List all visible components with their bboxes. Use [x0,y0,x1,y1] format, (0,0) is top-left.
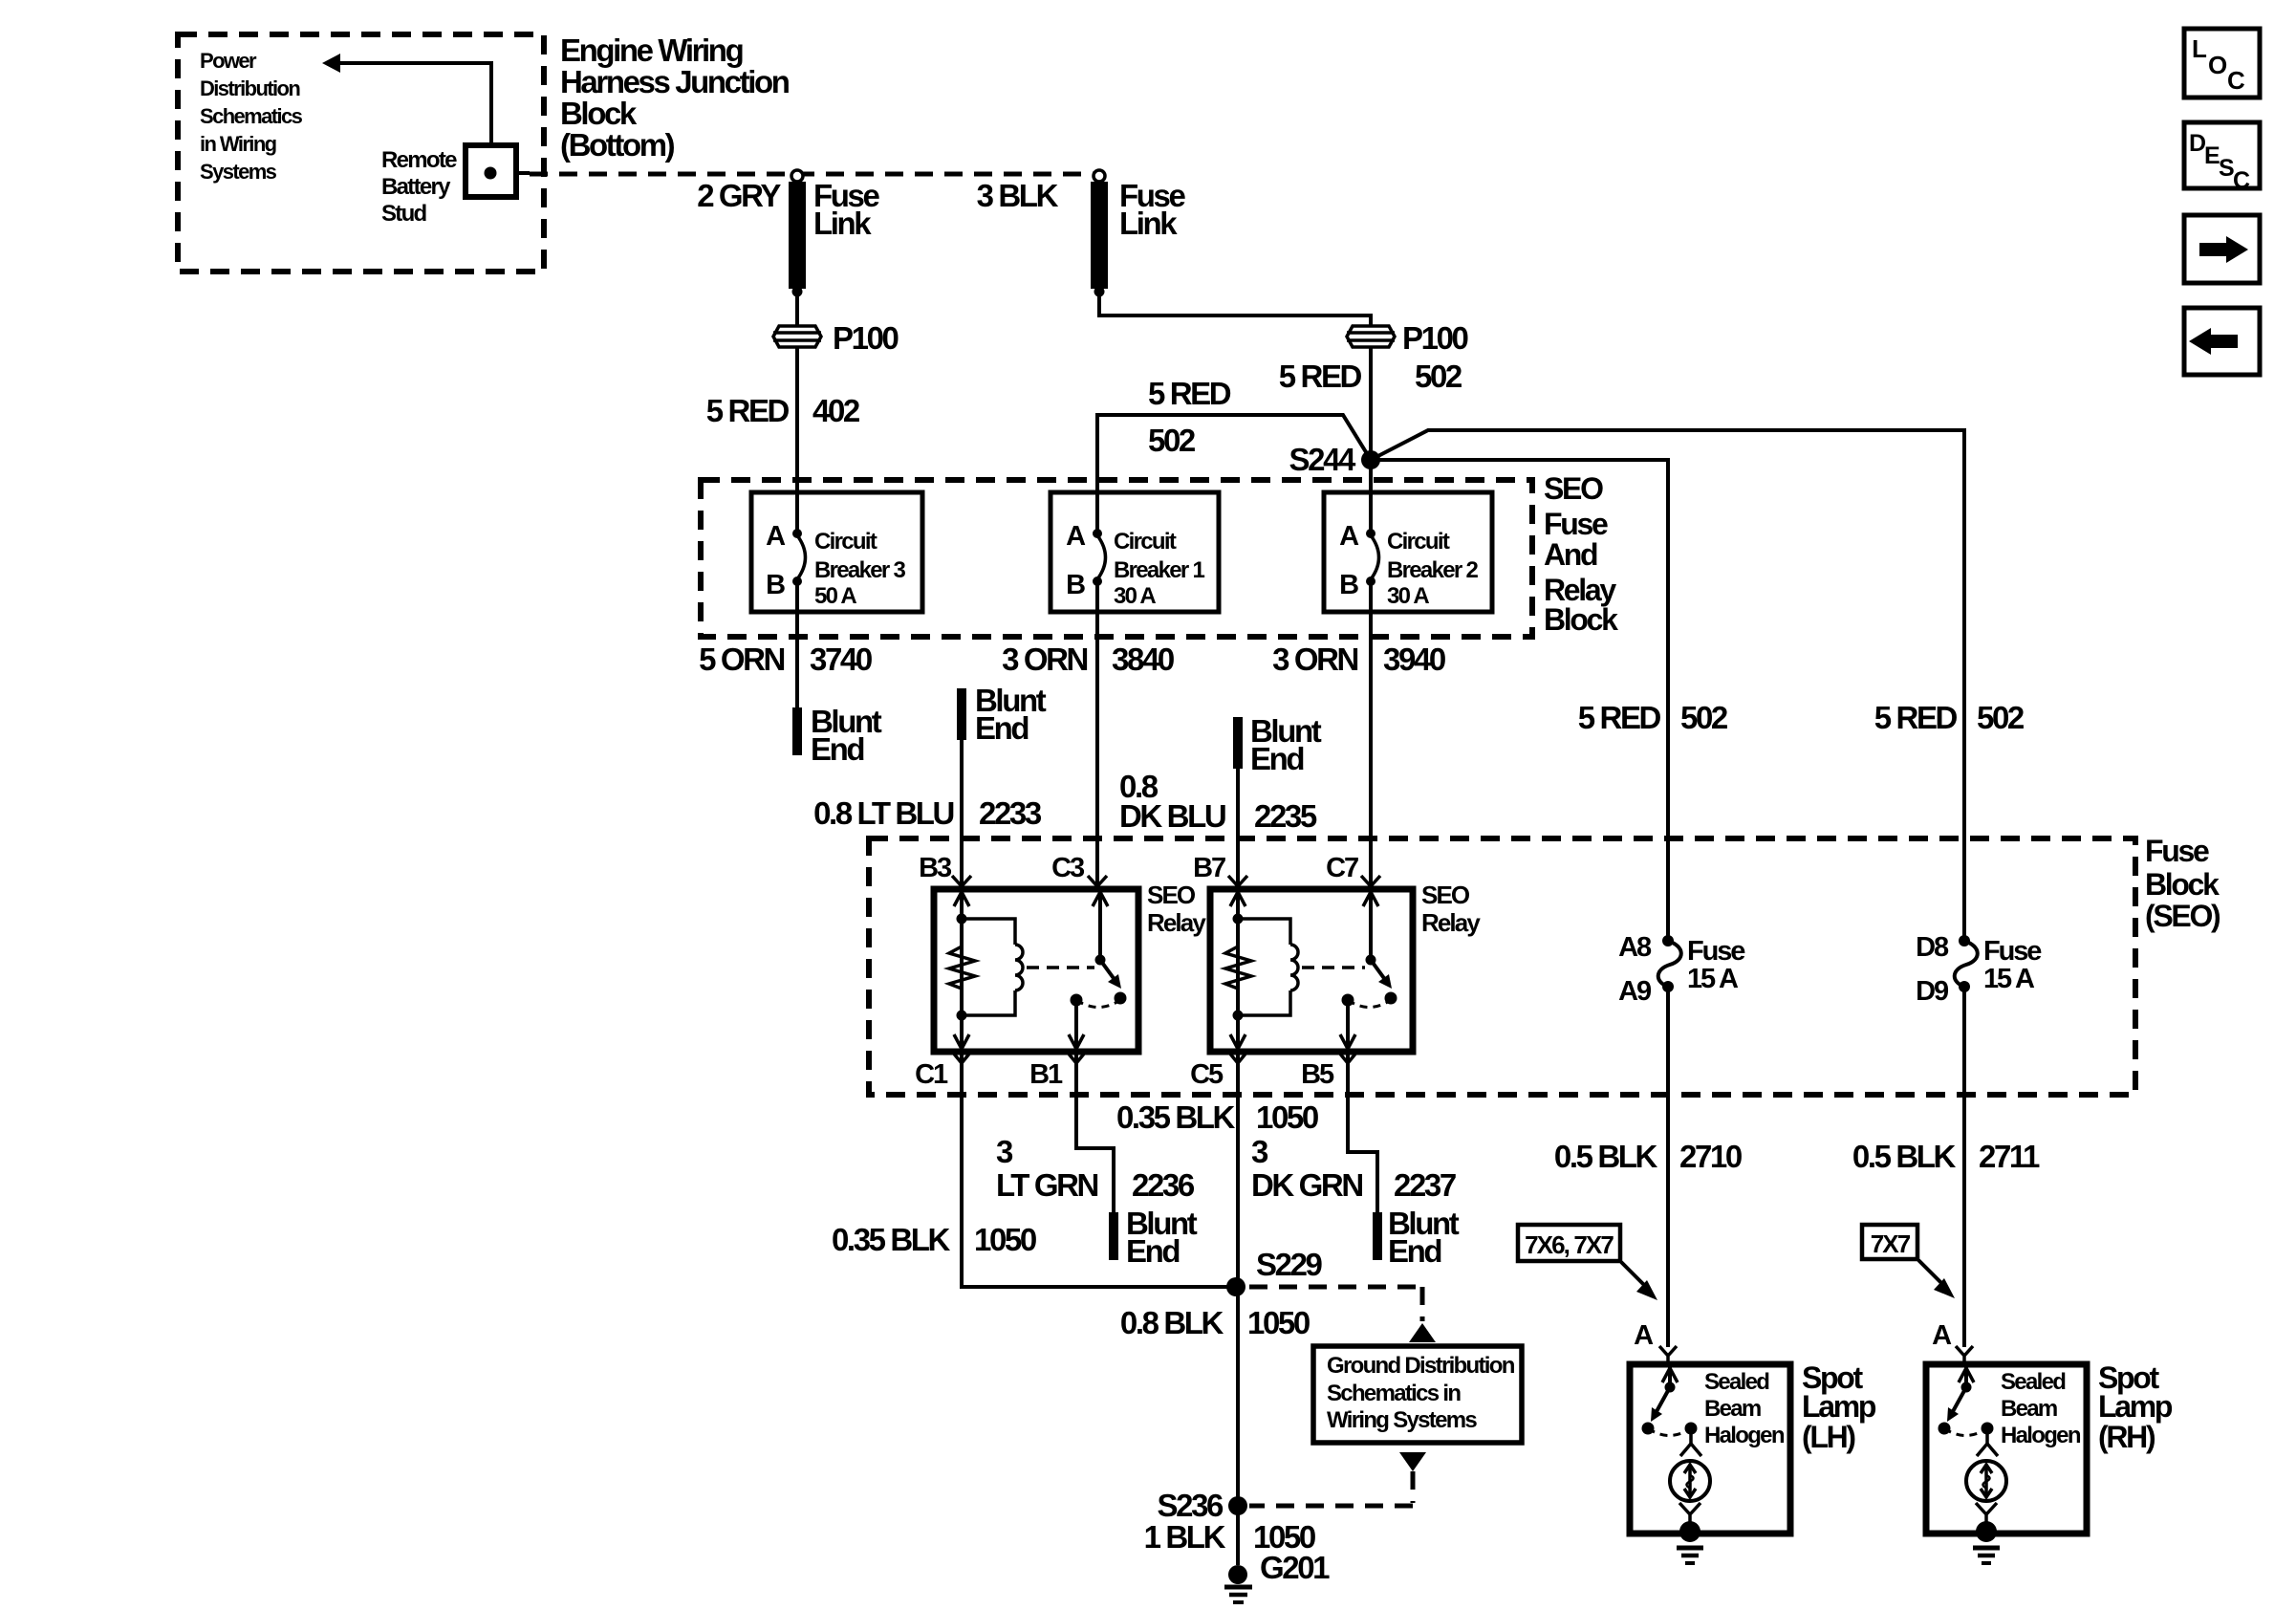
svg-text:Block: Block [2145,867,2220,902]
svg-text:B: B [1339,570,1358,600]
svg-text:Systems: Systems [200,160,277,184]
svg-text:5 ORN: 5 ORN [699,642,784,677]
svg-text:3840: 3840 [1112,642,1174,677]
icon box DESC [2184,122,2260,194]
SEO relay 1 [934,881,1206,1052]
svg-text:3: 3 [1251,1134,1268,1169]
fuse D8 D9 15A [1916,932,2042,1007]
svg-text:30 A: 30 A [1387,583,1429,609]
wire C5 to ground G201 [1236,1052,1240,1565]
splice S236 [1158,1488,1247,1523]
svg-text:502: 502 [1148,423,1196,458]
svg-text:B: B [766,570,785,600]
svg-text:3 ORN: 3 ORN [1272,642,1357,677]
wire S244 to fuse A8 [1371,460,1668,941]
label 0.8 BLK 1050 [1120,1305,1310,1340]
fuse link 2 (3 BLK) [977,170,1186,297]
wire S244 to CB1, label 5 RED 502 [1097,376,1371,492]
svg-text:And: And [1544,537,1597,572]
svg-text:7X7: 7X7 [1871,1229,1911,1258]
label 5 ORN 3740 [699,642,872,677]
svg-text:Circuit: Circuit [1387,529,1450,555]
connector P100 left [773,320,899,356]
wire B5 to blunt end, label 3 DK GRN 2237 [1251,1052,1460,1269]
ground G201 [1224,1550,1330,1602]
svg-text:Distribution: Distribution [200,76,300,100]
SEO relay 2 [1210,881,1481,1052]
wire P100 right to S244, label 5 RED 502 [1279,347,1462,492]
callout 7X6, 7X7 [1518,1225,1657,1300]
svg-text:2233: 2233 [979,795,1042,831]
svg-text:0.35 BLK: 0.35 BLK [832,1222,951,1257]
svg-text:Schematics in: Schematics in [1327,1381,1461,1406]
svg-text:D9: D9 [1916,976,1949,1007]
terminal B3 [919,853,971,889]
svg-text:15 A: 15 A [1687,964,1739,994]
svg-text:LT GRN: LT GRN [996,1167,1098,1203]
svg-text:0.5 BLK: 0.5 BLK [1852,1139,1957,1174]
svg-text:S229: S229 [1256,1247,1323,1282]
svg-text:50 A: 50 A [814,583,856,609]
svg-text:DK BLU: DK BLU [1119,798,1225,834]
svg-text:Lamp: Lamp [1802,1389,1876,1424]
svg-text:Beam: Beam [1704,1396,1761,1422]
wire B1 to blunt end, label 3 LT GRN 2236 [996,1052,1198,1269]
svg-text:B3: B3 [919,853,952,883]
wire A9 to spot lamp LH, label 0.5 BLK 2710 [1554,987,1742,1347]
terminal A spot lamp LH [1634,1320,1677,1364]
svg-text:End: End [1126,1233,1179,1269]
svg-text:End: End [811,731,863,767]
svg-text:502: 502 [1977,700,2025,735]
svg-text:A9: A9 [1618,976,1652,1007]
svg-text:P100: P100 [1402,320,1468,356]
svg-text:O: O [2208,51,2227,79]
label 3 ORN 3940 [1272,642,1445,677]
engine wiring harness junction block label [560,33,790,163]
svg-text:30 A: 30 A [1114,583,1156,609]
svg-text:Fuse: Fuse [1687,936,1745,967]
svg-text:Sealed: Sealed [1704,1369,1769,1395]
svg-text:B5: B5 [1301,1059,1334,1090]
svg-text:(SEO): (SEO) [2145,899,2220,933]
svg-text:0.8 LT BLU: 0.8 LT BLU [813,795,953,831]
svg-text:Wiring Systems: Wiring Systems [1327,1407,1477,1433]
fuse A8 A9 15A [1618,932,1745,1007]
svg-text:Fuse: Fuse [1544,507,1608,541]
ground distribution reference box [1313,1346,1522,1443]
callout 7X7 [1862,1225,1955,1298]
spot lamp RH [1926,1360,2173,1563]
splice S244 [1289,442,1380,477]
svg-text:502: 502 [1415,359,1462,394]
svg-text:Breaker 2: Breaker 2 [1387,557,1478,583]
terminal C5 [1190,1053,1246,1090]
svg-text:Breaker 3: Breaker 3 [814,557,905,583]
svg-text:Engine Wiring: Engine Wiring [560,33,743,68]
svg-text:Circuit: Circuit [1114,529,1177,555]
svg-text:Lamp: Lamp [2098,1389,2173,1424]
svg-text:G201: G201 [1260,1550,1330,1585]
svg-text:L: L [2192,34,2207,63]
svg-text:P100: P100 [833,320,899,356]
svg-text:3 BLK: 3 BLK [977,178,1059,213]
svg-text:Beam: Beam [2001,1396,2057,1422]
svg-text:2710: 2710 [1679,1139,1742,1174]
svg-text:Link: Link [1119,206,1178,241]
svg-text:5 RED: 5 RED [1279,359,1362,394]
svg-text:A: A [766,521,786,552]
icon box LOC [2184,29,2260,98]
svg-text:S236: S236 [1158,1488,1224,1523]
spot lamp LH [1630,1360,1876,1563]
svg-text:15 A: 15 A [1983,964,2035,994]
svg-text:Remote: Remote [381,147,457,173]
svg-text:C3: C3 [1051,853,1085,883]
wire D9 to spot lamp RH, label 0.5 BLK 2711 [1852,987,2040,1347]
svg-text:SEO: SEO [1544,471,1603,506]
svg-text:End: End [975,710,1028,746]
svg-text:B: B [1066,570,1085,600]
wire S244 to fuse D8 [1371,430,1964,941]
junction block boundary dashed wire [530,172,1094,177]
remote battery stud [381,145,530,227]
label 5 RED 502 (A8 feed) [1578,700,1728,735]
svg-text:2 GRY: 2 GRY [697,178,781,213]
svg-text:Halogen: Halogen [1704,1423,1785,1448]
terminal C7 [1326,853,1380,889]
svg-text:Ground Distribution: Ground Distribution [1327,1353,1515,1379]
blunt end wire to B7, label 0.8 DK BLU 2235 [1119,713,1322,889]
svg-text:in Wiring: in Wiring [200,132,276,156]
svg-text:End: End [1388,1233,1440,1269]
label 3 ORN 3840 [1002,642,1174,677]
svg-text:SEO: SEO [1421,881,1470,909]
svg-text:1 BLK: 1 BLK [1144,1519,1226,1555]
svg-text:1050: 1050 [1247,1305,1310,1340]
svg-text:Fuse: Fuse [1983,936,2042,967]
svg-text:402: 402 [812,393,860,428]
blunt end below CB3 [797,704,882,767]
circuit breaker 1 30A [1051,492,1219,889]
svg-text:2711: 2711 [1979,1139,2040,1174]
wire fuse link 1 to P100 [795,292,799,326]
svg-text:502: 502 [1680,700,1728,735]
svg-text:Fuse: Fuse [2145,834,2209,868]
label 1 BLK 1050 [1144,1519,1315,1555]
fuse link 1 (2 GRY) [697,170,879,297]
wire fuse link 2 to P100 right [1099,292,1371,326]
svg-text:A: A [1339,521,1359,552]
svg-text:Schematics: Schematics [200,104,303,128]
circuit breaker 2 30A [1324,492,1492,889]
svg-text:2237: 2237 [1394,1167,1456,1203]
svg-text:Halogen: Halogen [2001,1423,2081,1448]
svg-text:0.5 BLK: 0.5 BLK [1554,1139,1658,1174]
svg-text:Battery: Battery [381,174,451,200]
svg-text:(RH): (RH) [2098,1420,2155,1454]
svg-text:B1: B1 [1029,1059,1063,1090]
svg-text:Block: Block [560,96,638,131]
connector P100 right [1347,320,1468,356]
svg-text:C: C [2233,167,2250,194]
svg-text:Relay: Relay [1421,908,1481,937]
svg-text:Relay: Relay [1147,908,1206,937]
svg-text:C1: C1 [915,1059,948,1090]
wire C1 to S229, label 0.35 BLK 1050 [832,1052,1236,1287]
svg-text:2235: 2235 [1254,798,1317,834]
fuse block SEO dashed box [869,834,2220,1095]
icon box left arrow [2184,308,2260,375]
svg-text:End: End [1250,741,1303,776]
dashed link ground distribution box to S236 [1249,1452,1426,1506]
svg-text:5 RED: 5 RED [1874,700,1958,735]
svg-text:3740: 3740 [810,642,872,677]
svg-text:A: A [1066,521,1086,552]
dashed link S229 to ground distribution box [1249,1287,1436,1342]
svg-text:C5: C5 [1190,1059,1224,1090]
terminal B5 [1301,1053,1356,1090]
svg-text:(Bottom): (Bottom) [560,127,675,163]
terminal A spot lamp RH [1932,1320,1973,1364]
splice S229 [1226,1247,1323,1296]
svg-text:3: 3 [996,1134,1013,1169]
svg-text:5 RED: 5 RED [1578,700,1661,735]
svg-text:Stud: Stud [381,201,427,227]
blunt end wire to B3, label 0.8 LT BLU 2233 [813,683,1047,889]
svg-text:A: A [1932,1320,1952,1351]
label 5 RED 502 (D8 feed) [1874,700,2025,735]
terminal C3 [1051,853,1107,889]
svg-text:3940: 3940 [1383,642,1445,677]
svg-text:SEO: SEO [1147,881,1196,909]
svg-text:(LH): (LH) [1802,1420,1855,1454]
svg-text:1050: 1050 [1256,1099,1318,1135]
arrow from battery stud to reference box [322,54,491,145]
svg-text:A8: A8 [1618,932,1652,963]
svg-text:C: C [2227,66,2245,95]
reference box Power Distribution Schematics [178,34,544,272]
circuit breaker 3 50A [751,492,922,707]
svg-text:S244: S244 [1289,442,1357,477]
svg-text:A: A [1634,1320,1654,1351]
svg-text:5 RED: 5 RED [706,393,790,428]
terminal B7 [1193,853,1247,889]
svg-text:3 ORN: 3 ORN [1002,642,1087,677]
svg-text:Sealed: Sealed [2001,1369,2066,1395]
svg-text:B7: B7 [1193,853,1225,883]
svg-text:D8: D8 [1916,932,1949,963]
svg-text:Harness Junction: Harness Junction [560,64,790,99]
svg-text:2236: 2236 [1132,1167,1195,1203]
svg-text:Breaker 1: Breaker 1 [1114,557,1204,583]
label 0.35 BLK 1050 (C5) [1116,1099,1318,1135]
svg-text:C7: C7 [1326,853,1358,883]
terminal C1 [915,1053,970,1090]
svg-text:Power: Power [200,49,257,73]
svg-text:7X6, 7X7: 7X6, 7X7 [1525,1230,1614,1259]
svg-text:1050: 1050 [974,1222,1036,1257]
svg-text:0.8 BLK: 0.8 BLK [1120,1305,1224,1340]
svg-text:5 RED: 5 RED [1148,376,1231,411]
svg-text:Block: Block [1544,602,1618,637]
svg-text:0.35 BLK: 0.35 BLK [1116,1099,1236,1135]
svg-text:Circuit: Circuit [814,529,877,555]
icon box right arrow [2184,215,2260,283]
svg-text:Link: Link [813,206,872,241]
terminal B1 [1029,1053,1085,1090]
wire P100 to CB3, label 5 RED 402 [706,347,860,492]
SEO fuse and relay block dashed box [701,471,1618,637]
svg-text:DK GRN: DK GRN [1251,1167,1362,1203]
